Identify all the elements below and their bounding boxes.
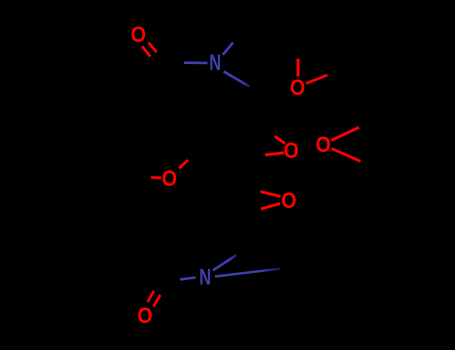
wire N2 left bond — [180, 278, 196, 280]
wire O3 down-right bond — [332, 149, 361, 162]
wire O6 upper-left bond — [261, 192, 281, 197]
wire O6 lower-left bond — [261, 204, 280, 210]
oxygen O2 (upper-right ether) — [290, 75, 305, 100]
svg-text:O: O — [162, 166, 177, 191]
wire N1 lower-right bond — [224, 72, 250, 87]
oxygen O1 (top-left carbonyl) — [131, 22, 146, 47]
oxygen O6 (lower epoxide) — [281, 188, 296, 213]
nitrogen N1 (top amide) — [209, 50, 221, 75]
svg-text:O: O — [281, 188, 296, 213]
nitrogen N2 (bottom amide) — [199, 265, 211, 290]
wire N1 left bond — [184, 61, 208, 64]
wire O5 left bond — [151, 176, 161, 179]
wire N1 upper-right bond — [223, 43, 233, 55]
wire O5 up-right bond — [179, 160, 188, 168]
svg-text:O: O — [131, 22, 146, 47]
wire O3 up-right bond — [332, 127, 360, 140]
wire O2 vertical bond — [297, 59, 300, 77]
oxygen O4 (middle epoxide) — [284, 138, 299, 163]
oxygen O3 (right epoxide) — [316, 132, 331, 157]
svg-text:O: O — [284, 138, 299, 163]
svg-text:O: O — [137, 303, 152, 328]
oxygen O7 (bottom carbonyl) — [137, 303, 152, 328]
wire N2 long right bond — [215, 269, 280, 277]
wire O2 up-right bond — [306, 75, 328, 84]
wire C=O double bond line a (top-left) — [142, 46, 150, 56]
svg-text:N: N — [209, 50, 221, 75]
svg-text:O: O — [290, 75, 305, 100]
svg-text:O: O — [316, 132, 331, 157]
wire C=O double bond line b (bottom) — [154, 295, 161, 307]
oxygen O5 (left methoxy ether) — [162, 166, 177, 191]
wire O4 left bond — [265, 153, 284, 155]
svg-text:N: N — [199, 265, 211, 290]
wire N2 up-right bond — [213, 255, 237, 270]
wire C=O double bond line b (top-left) — [148, 43, 156, 53]
wire O4 upper-left bond — [275, 136, 285, 143]
wire C=O double bond line a (bottom) — [148, 291, 154, 302]
